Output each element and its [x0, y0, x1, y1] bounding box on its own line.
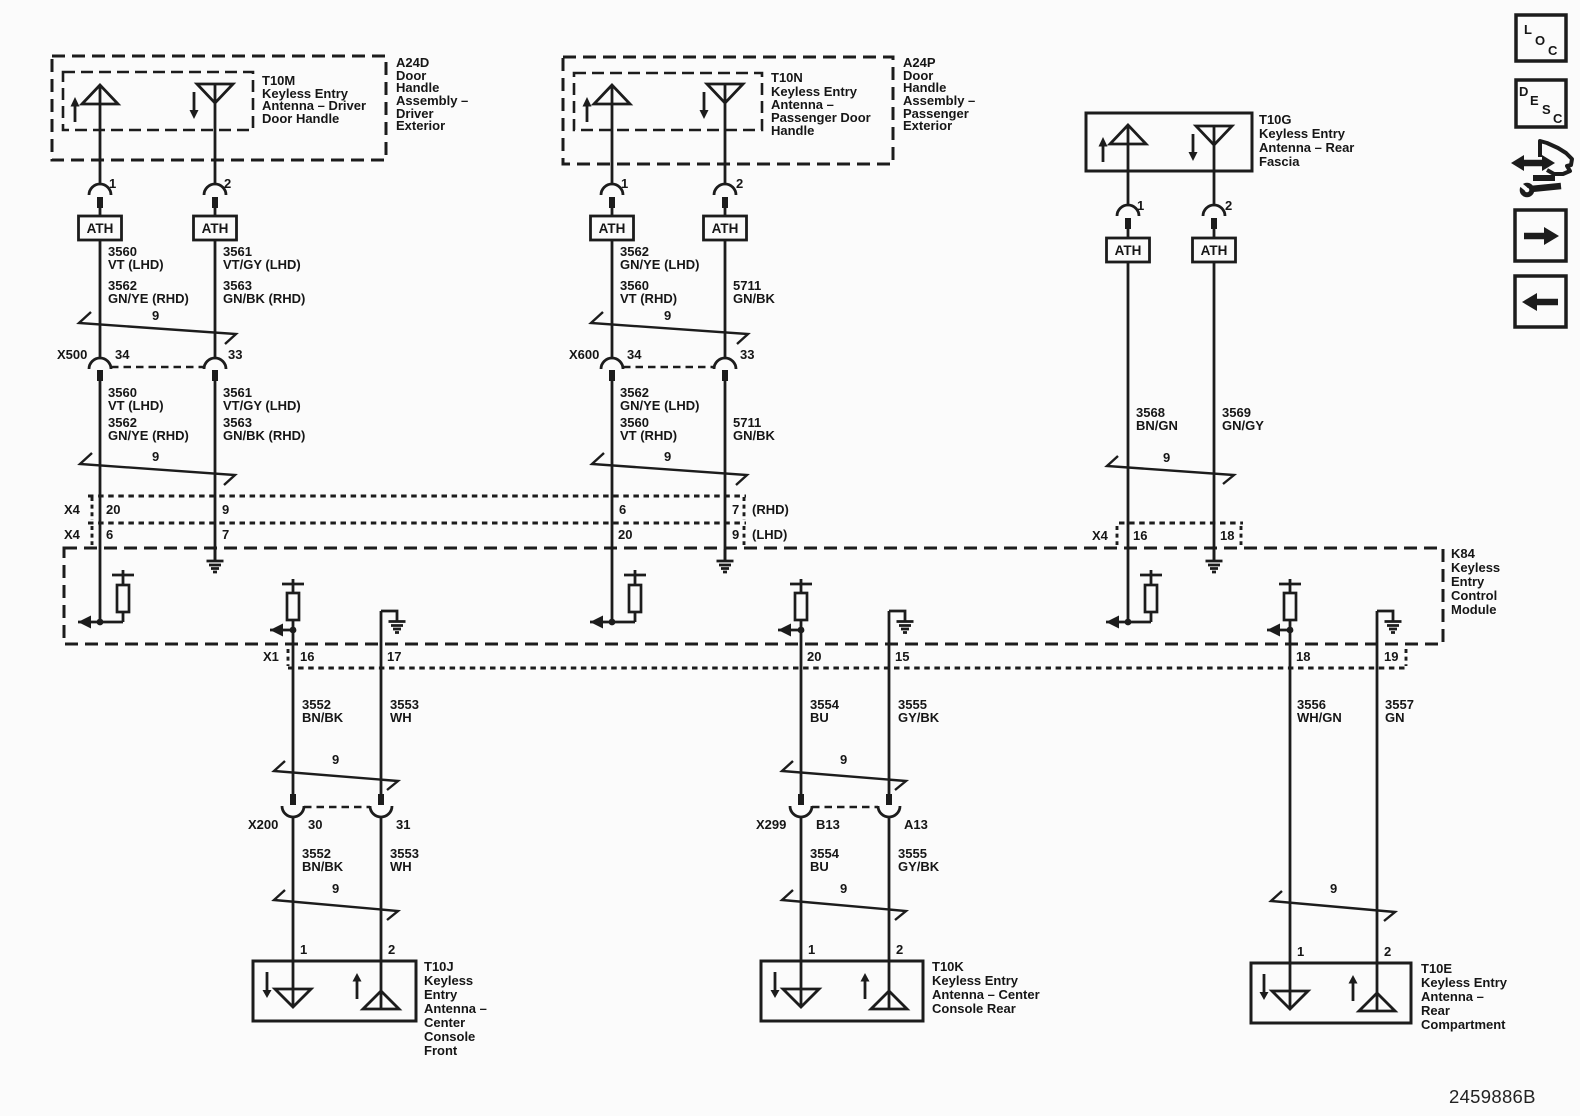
- svg-text:Antenna –: Antenna –: [424, 1001, 487, 1016]
- twisted pair symbol 9 (A24P lower): [592, 449, 747, 485]
- svg-text:7: 7: [732, 502, 739, 517]
- inline connector ATH (T10N right): [704, 216, 747, 240]
- connector X1 band: [288, 649, 1406, 668]
- resistor K84 center console rear antenna drive: [778, 579, 812, 637]
- svg-text:T10J: T10J: [424, 959, 454, 974]
- ground jog (pin19 in K84): [1377, 611, 1402, 633]
- pin 19 label X1: [1384, 649, 1398, 664]
- label wire 5711 lower: [733, 415, 776, 443]
- svg-text:2: 2: [388, 942, 395, 957]
- wire 3560 ATH to X500: [99, 240, 102, 358]
- label wire 3556 WH/GN: [1297, 697, 1342, 725]
- svg-text:9: 9: [332, 752, 339, 767]
- svg-text:BU: BU: [810, 859, 829, 874]
- connector X500 pin33: [204, 358, 226, 381]
- svg-text:GN/BK: GN/BK: [733, 428, 776, 443]
- svg-text:34: 34: [627, 347, 642, 362]
- svg-text:VT/GY (LHD): VT/GY (LHD): [223, 398, 301, 413]
- wire 5711 X600 to ground: [724, 381, 727, 561]
- wire T10G pin1 stem: [1127, 125, 1130, 205]
- label T10E text block: [1421, 961, 1508, 1032]
- svg-text:GY/BK: GY/BK: [898, 859, 940, 874]
- connector X200 body dashed: [304, 806, 370, 809]
- connector terminal pin1 T10M: [89, 184, 111, 208]
- wire 3554 X299 to T10K: [800, 817, 803, 1007]
- svg-text:Door Handle: Door Handle: [262, 111, 339, 126]
- wire pin2 to ATH: [214, 205, 217, 216]
- label wire 3552 BN/BK: [302, 697, 344, 725]
- svg-text:Exterior: Exterior: [396, 118, 445, 133]
- box A24P door handle assembly passenger exterior: [563, 57, 893, 164]
- icon back arrow box: [1515, 276, 1566, 327]
- resistor K84 passenger antenna drive: [590, 570, 646, 629]
- label wire 3554 BU: [810, 697, 840, 725]
- label T10K text block: [932, 959, 1040, 1016]
- pin 31 label X200: [396, 817, 410, 832]
- svg-text:16: 16: [1133, 528, 1147, 543]
- svg-text:(RHD): (RHD): [752, 502, 789, 517]
- svg-text:D: D: [1519, 84, 1528, 99]
- twisted pair symbol 9 (console rear lower): [782, 881, 906, 920]
- label connector X1: [263, 649, 279, 664]
- label T10N text block: [771, 70, 871, 138]
- connector X200 pin31: [370, 794, 392, 817]
- pin 33 label X500: [228, 347, 242, 362]
- label connector X4 rear: [1092, 528, 1109, 543]
- box K84 keyless entry control module: [64, 548, 1443, 644]
- svg-text:Exterior: Exterior: [903, 118, 952, 133]
- svg-text:Module: Module: [1451, 602, 1497, 617]
- svg-text:Keyless: Keyless: [424, 973, 473, 988]
- connector X200 pin30: [282, 794, 304, 817]
- label wire 3568 BN/GN: [1136, 405, 1178, 433]
- twisted pair symbol 9 (T10G): [1107, 450, 1234, 484]
- label connector X4 row1: [64, 502, 81, 517]
- wire T10G pin2 stem: [1213, 126, 1216, 205]
- svg-text:18: 18: [1220, 528, 1234, 543]
- connector terminal pin2 T10G: [1203, 205, 1225, 229]
- svg-text:VT (LHD): VT (LHD): [108, 398, 164, 413]
- svg-text:9: 9: [1163, 450, 1170, 465]
- svg-text:33: 33: [228, 347, 242, 362]
- connector X4 band rows (RHD/LHD): [88, 496, 746, 545]
- svg-text:VT (RHD): VT (RHD): [620, 291, 677, 306]
- ground jog (pin15 in K84): [889, 611, 914, 633]
- svg-text:GN/YE (RHD): GN/YE (RHD): [108, 291, 189, 306]
- svg-text:Keyless Entry: Keyless Entry: [1259, 126, 1346, 141]
- label wire 3553 WH: [390, 697, 419, 725]
- connector terminal pin1 T10G: [1117, 205, 1139, 229]
- svg-text:BN/BK: BN/BK: [302, 710, 344, 725]
- svg-text:1: 1: [1297, 944, 1304, 959]
- pin 2 label T10K: [896, 942, 903, 957]
- svg-text:Fascia: Fascia: [1259, 154, 1300, 169]
- label T10M text block: [262, 73, 366, 126]
- svg-text:S: S: [1542, 102, 1551, 117]
- svg-text:Console: Console: [424, 1029, 475, 1044]
- antenna T10N transmit (up arrow, triangle): [583, 85, 631, 122]
- svg-text:VT/GY (LHD): VT/GY (LHD): [223, 257, 301, 272]
- antenna T10J receive (down arrow, inverted triangle): [263, 972, 312, 1007]
- pin 16 label X4 rear: [1133, 528, 1147, 543]
- connector terminal pin1 T10N: [601, 184, 623, 208]
- svg-text:E: E: [1530, 93, 1539, 108]
- pin 34 label X600: [627, 347, 642, 362]
- pin 2 label T10G: [1225, 198, 1232, 213]
- twisted pair symbol 9 (rear compartment): [1271, 881, 1395, 921]
- wire pin1 to ATH (T10N): [611, 205, 614, 216]
- svg-text:O: O: [1535, 33, 1545, 48]
- svg-text:X500: X500: [57, 347, 87, 362]
- svg-text:Center: Center: [424, 1015, 465, 1030]
- svg-text:Entry: Entry: [424, 987, 458, 1002]
- twisted pair symbol 9 (console front lower): [274, 881, 398, 920]
- antenna T10G receive (down arrow, inverted triangle): [1189, 126, 1233, 161]
- svg-text:1: 1: [808, 942, 815, 957]
- resistor K84 rear fascia antenna drive: [1106, 570, 1162, 629]
- label T10J text block: [424, 959, 487, 1058]
- twisted pair symbol 9 (A24D lower): [80, 449, 235, 485]
- twisted pair symbol 9 (A24D upper): [79, 308, 236, 344]
- pin A13 label X299: [904, 817, 928, 832]
- svg-text:20: 20: [807, 649, 821, 664]
- pin B13 label X299: [816, 817, 840, 832]
- antenna T10E transmit (up arrow, triangle): [1349, 975, 1396, 1011]
- pin 16 label X1: [300, 649, 314, 664]
- inline connector ATH (T10G right): [1193, 238, 1236, 262]
- svg-text:33: 33: [740, 347, 754, 362]
- connector terminal pin2 T10M: [204, 184, 226, 208]
- label drawing number: [1449, 1086, 1536, 1107]
- pin 2 label T10M: [224, 176, 231, 191]
- wire 3569 ATH to ground: [1213, 262, 1216, 561]
- svg-text:9: 9: [664, 449, 671, 464]
- pin 34 label X500: [115, 347, 130, 362]
- svg-text:Keyless: Keyless: [1451, 560, 1500, 575]
- connector X500 label: [57, 347, 87, 362]
- svg-text:(LHD): (LHD): [752, 527, 787, 542]
- pin 17 label X1: [387, 649, 401, 664]
- box T10N keyless entry antenna passenger door handle: [574, 73, 762, 130]
- svg-text:GN: GN: [1385, 710, 1405, 725]
- svg-text:X4: X4: [64, 502, 81, 517]
- svg-text:9: 9: [664, 308, 671, 323]
- svg-text:Antenna – Center: Antenna – Center: [932, 987, 1040, 1002]
- svg-text:B13: B13: [816, 817, 840, 832]
- svg-text:19: 19: [1384, 649, 1398, 664]
- antenna T10M receive (down arrow, inverted triangle): [190, 84, 234, 119]
- svg-text:ATH: ATH: [1201, 243, 1228, 258]
- pin 18 label X1: [1296, 649, 1310, 664]
- box T10E keyless entry antenna rear compartment: [1251, 963, 1411, 1023]
- connector X299 body dashed: [812, 806, 878, 809]
- svg-text:20: 20: [618, 527, 632, 542]
- svg-text:T10G: T10G: [1259, 112, 1292, 127]
- antenna T10K receive (down arrow, inverted triangle): [771, 972, 820, 1007]
- svg-text:X4: X4: [1092, 528, 1109, 543]
- wire 3557 K84 to T10E: [1376, 611, 1379, 1011]
- label wire 3552 lower: [302, 846, 344, 874]
- svg-text:GN/YE (LHD): GN/YE (LHD): [620, 398, 699, 413]
- box T10K keyless entry antenna center console rear: [761, 961, 923, 1021]
- svg-text:9: 9: [152, 449, 159, 464]
- svg-text:VT (LHD): VT (LHD): [108, 257, 164, 272]
- label (RHD): [752, 502, 789, 517]
- resistor K84 rear compartment antenna drive: [1267, 579, 1301, 637]
- label wire 3560 VT lower: [108, 385, 189, 443]
- pin 9 label X4 row1: [222, 502, 229, 517]
- svg-text:Antenna –: Antenna –: [1421, 989, 1484, 1004]
- wire 3561 X500 to ground: [214, 381, 217, 561]
- twisted pair symbol 9 (console rear upper): [782, 752, 906, 790]
- pin 18 label X4 rear: [1220, 528, 1234, 543]
- svg-text:X200: X200: [248, 817, 278, 832]
- wire 3562 ATH to X600: [611, 240, 614, 358]
- svg-text:30: 30: [308, 817, 322, 832]
- svg-text:2: 2: [736, 176, 743, 191]
- label wire 3553 lower: [390, 846, 419, 874]
- svg-text:Entry: Entry: [1451, 574, 1485, 589]
- pin 1 label T10K: [808, 942, 815, 957]
- label (LHD): [752, 527, 787, 542]
- label wire 3554 lower: [810, 846, 840, 874]
- twisted pair symbol 9 (A24P upper): [591, 308, 748, 344]
- svg-text:15: 15: [895, 649, 909, 664]
- svg-text:2: 2: [1225, 198, 1232, 213]
- svg-text:6: 6: [619, 502, 626, 517]
- inline connector ATH (left): [79, 216, 122, 240]
- svg-text:Antenna – Rear: Antenna – Rear: [1259, 140, 1354, 155]
- svg-text:9: 9: [732, 527, 739, 542]
- antenna T10G transmit (up arrow, triangle): [1099, 125, 1147, 162]
- svg-text:Rear: Rear: [1421, 1003, 1450, 1018]
- pin 2 label T10N: [736, 176, 743, 191]
- pin 7 label X4 row2: [222, 527, 229, 542]
- wire T10M pin1 stem: [99, 85, 102, 184]
- svg-text:ATH: ATH: [599, 221, 626, 236]
- label connector X4 row2: [64, 527, 81, 542]
- inline connector ATH (T10N left): [591, 216, 634, 240]
- svg-text:Control: Control: [1451, 588, 1497, 603]
- pin 20 label X4 row1: [106, 502, 120, 517]
- resistor K84 center console front antenna drive: [270, 579, 304, 637]
- pin 33 label X600: [740, 347, 754, 362]
- pin 1 label T10N: [621, 176, 628, 191]
- icon door-harness with wrench: [1511, 141, 1572, 195]
- connector terminal pin2 T10N: [714, 184, 736, 208]
- svg-text:9: 9: [840, 881, 847, 896]
- svg-text:Handle: Handle: [771, 123, 814, 138]
- wire 5711 ATH to X600: [724, 240, 727, 358]
- svg-text:C: C: [1553, 111, 1563, 126]
- svg-text:A13: A13: [904, 817, 928, 832]
- wire 3553 K84 to X200: [380, 611, 383, 794]
- svg-text:GN/YE (LHD): GN/YE (LHD): [620, 257, 699, 272]
- svg-text:Keyless Entry: Keyless Entry: [932, 973, 1019, 988]
- svg-text:X4: X4: [64, 527, 81, 542]
- svg-text:GN/GY: GN/GY: [1222, 418, 1264, 433]
- icon LOC box: [1516, 15, 1566, 61]
- svg-text:2: 2: [1384, 944, 1391, 959]
- box T10M keyless entry antenna driver door handle: [63, 72, 253, 130]
- svg-text:X600: X600: [569, 347, 599, 362]
- wire 3555 X299 to T10K: [888, 817, 891, 1009]
- antenna T10J transmit (up arrow, triangle): [353, 973, 400, 1009]
- wire 3560 X500 to K84: [99, 381, 102, 622]
- twisted pair symbol 9 (console front upper): [274, 752, 398, 790]
- connector X500 body dashed: [111, 366, 204, 369]
- svg-text:T10E: T10E: [1421, 961, 1452, 976]
- antenna T10M transmit (up arrow, triangle): [71, 85, 119, 122]
- box T10J keyless entry antenna center console front: [253, 961, 416, 1021]
- svg-text:Compartment: Compartment: [1421, 1017, 1506, 1032]
- svg-text:VT (RHD): VT (RHD): [620, 428, 677, 443]
- label K84 text block: [1451, 546, 1500, 617]
- wire 3553 X200 to T10J: [380, 817, 383, 1009]
- pin 6 label X4 row2: [106, 527, 113, 542]
- svg-text:X299: X299: [756, 817, 786, 832]
- svg-text:ATH: ATH: [202, 221, 229, 236]
- label wire 3560 VT: [108, 244, 189, 306]
- pin 6 label X4 row1: [619, 502, 626, 517]
- svg-text:T10K: T10K: [932, 959, 964, 974]
- wire 3554 K84 to X299: [800, 630, 803, 794]
- pin 9 label X4 row2: [732, 527, 739, 542]
- wire 3562 X600 to K84: [611, 381, 614, 622]
- ground jog (pin17 in K84): [381, 611, 406, 633]
- svg-text:L: L: [1524, 22, 1532, 37]
- pin 2 label T10E: [1384, 944, 1391, 959]
- pin 20 label X1: [807, 649, 821, 664]
- icon DESC box: [1516, 80, 1566, 127]
- svg-text:9: 9: [840, 752, 847, 767]
- label wire 5711 GN/BK: [733, 278, 776, 306]
- wire 3556 K84 to T10E: [1289, 630, 1292, 1009]
- inline connector ATH (T10G left): [1107, 238, 1150, 262]
- antenna T10K transmit (up arrow, triangle): [861, 973, 908, 1009]
- wire T10M pin2 stem: [214, 84, 217, 184]
- pin 7 label X4 row1: [732, 502, 739, 517]
- label wire 3557 GN: [1385, 697, 1414, 725]
- svg-text:31: 31: [396, 817, 410, 832]
- svg-text:9: 9: [222, 502, 229, 517]
- wire pin1 to ATH: [99, 205, 102, 216]
- svg-text:BU: BU: [810, 710, 829, 725]
- pin 30 label X200: [308, 817, 322, 832]
- wire 3555 K84 to X299: [888, 611, 891, 794]
- antenna T10E receive (down arrow, inverted triangle): [1260, 974, 1309, 1009]
- svg-text:6: 6: [106, 527, 113, 542]
- pin 20 label X4 row2: [618, 527, 632, 542]
- svg-text:9: 9: [152, 308, 159, 323]
- svg-text:9: 9: [1330, 881, 1337, 896]
- connector X600 label: [569, 347, 599, 362]
- wire T10N pin1 stem: [611, 85, 614, 184]
- pin 1 label T10G: [1137, 198, 1144, 213]
- label A24P text block: [903, 55, 975, 133]
- svg-text:20: 20: [106, 502, 120, 517]
- svg-text:GN/BK (RHD): GN/BK (RHD): [223, 291, 305, 306]
- icon forward arrow box: [1515, 210, 1566, 261]
- svg-text:ATH: ATH: [1115, 243, 1142, 258]
- svg-text:2459886B: 2459886B: [1449, 1086, 1536, 1107]
- wire pin1 to ATH (T10G): [1127, 226, 1130, 238]
- connector X299 pinB13: [790, 794, 812, 817]
- svg-text:BN/BK: BN/BK: [302, 859, 344, 874]
- svg-text:1: 1: [300, 942, 307, 957]
- label connector X299: [756, 817, 786, 832]
- svg-text:18: 18: [1296, 649, 1310, 664]
- wire pin2 to ATH (T10G): [1213, 226, 1216, 238]
- svg-text:GN/BK (RHD): GN/BK (RHD): [223, 428, 305, 443]
- svg-text:C: C: [1548, 43, 1558, 58]
- svg-text:K84: K84: [1451, 546, 1476, 561]
- connector X4 band (rear fascia): [1117, 523, 1243, 545]
- svg-text:WH: WH: [390, 710, 412, 725]
- label wire 3562 lower: [620, 385, 699, 443]
- wire 3561 ATH to X500: [214, 240, 217, 358]
- svg-text:Keyless Entry: Keyless Entry: [1421, 975, 1508, 990]
- connector X500 pin34: [89, 358, 111, 381]
- svg-text:BN/GN: BN/GN: [1136, 418, 1178, 433]
- wire 3568 ATH to K84: [1127, 262, 1130, 622]
- svg-text:2: 2: [896, 942, 903, 957]
- label wire 3562 GN/YE: [620, 244, 699, 306]
- svg-text:34: 34: [115, 347, 130, 362]
- pin 2 label T10J: [388, 942, 395, 957]
- svg-text:ATH: ATH: [712, 221, 739, 236]
- svg-text:WH/GN: WH/GN: [1297, 710, 1342, 725]
- connector X600 pin33: [714, 358, 736, 381]
- label wire 3561 VT/GY: [223, 244, 305, 306]
- wire 3552 K84 to X200: [292, 630, 295, 794]
- svg-text:WH: WH: [390, 859, 412, 874]
- inline connector ATH (right): [194, 216, 237, 240]
- svg-text:ATH: ATH: [87, 221, 114, 236]
- wire T10N pin2 stem: [724, 84, 727, 184]
- svg-text:X1: X1: [263, 649, 279, 664]
- label connector X200: [248, 817, 278, 832]
- label wire 3555 GY/BK: [898, 697, 940, 725]
- label T10G text block: [1259, 112, 1354, 169]
- box T10G keyless entry antenna rear fascia: [1086, 113, 1252, 171]
- pin 1 label T10J: [300, 942, 307, 957]
- label wire 3555 lower: [898, 846, 940, 874]
- wire pin2 to ATH (T10N): [724, 205, 727, 216]
- label wire 3569 GN/GY: [1222, 405, 1264, 433]
- svg-text:Console Rear: Console Rear: [932, 1001, 1016, 1016]
- svg-text:16: 16: [300, 649, 314, 664]
- svg-text:T10N: T10N: [771, 70, 803, 85]
- ground (3561 in K84): [207, 549, 224, 572]
- pin 15 label X1: [895, 649, 909, 664]
- svg-text:17: 17: [387, 649, 401, 664]
- pin 1 label T10M: [109, 176, 116, 191]
- label A24D text block: [396, 55, 468, 133]
- svg-text:9: 9: [332, 881, 339, 896]
- connector X600 body dashed: [623, 366, 714, 369]
- resistor K84 driver antenna drive: [78, 570, 134, 629]
- ground (3569 in K84): [1206, 549, 1223, 572]
- svg-text:GN/BK: GN/BK: [733, 291, 776, 306]
- svg-text:GN/YE (RHD): GN/YE (RHD): [108, 428, 189, 443]
- connector X600 pin34: [601, 358, 623, 381]
- pin 1 label T10E: [1297, 944, 1304, 959]
- connector X299 pinA13: [878, 794, 900, 817]
- antenna T10N receive (down arrow, inverted triangle): [700, 84, 744, 119]
- box A24D door handle assembly driver exterior: [52, 56, 386, 160]
- svg-text:GY/BK: GY/BK: [898, 710, 940, 725]
